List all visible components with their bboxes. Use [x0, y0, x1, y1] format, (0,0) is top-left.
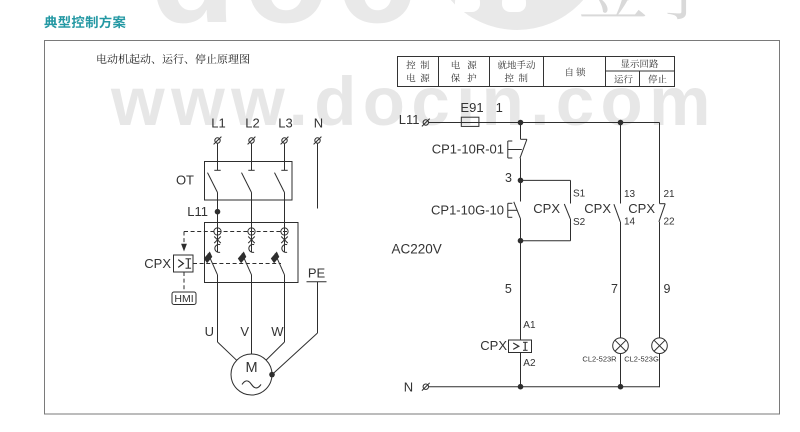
svg-text:CP1-10G-10: CP1-10G-10 [431, 203, 504, 218]
svg-text:W: W [271, 324, 284, 339]
svg-text:U: U [205, 324, 214, 339]
svg-text:7: 7 [611, 282, 618, 296]
svg-text:3: 3 [505, 171, 512, 185]
svg-text:5: 5 [505, 282, 512, 296]
svg-text:CPX: CPX [584, 201, 611, 216]
svg-text:L1: L1 [211, 116, 225, 131]
svg-text:L3: L3 [278, 116, 292, 131]
svg-text:M: M [245, 360, 257, 376]
svg-text:CPX: CPX [144, 256, 171, 271]
svg-text:V: V [240, 324, 249, 339]
svg-text:PE: PE [308, 266, 326, 281]
svg-text:S1: S1 [573, 189, 586, 200]
svg-text:A2: A2 [523, 358, 536, 369]
svg-text:OT: OT [176, 173, 194, 188]
svg-text:CPX: CPX [480, 338, 507, 353]
svg-text:CP1-10R-01: CP1-10R-01 [432, 142, 504, 157]
svg-text:21: 21 [664, 189, 676, 200]
svg-text:N: N [404, 380, 413, 395]
svg-text:L11: L11 [399, 112, 420, 127]
svg-text:CPX: CPX [533, 201, 560, 216]
svg-text:1: 1 [496, 100, 503, 115]
svg-text:AC220V: AC220V [392, 242, 442, 257]
svg-text:HMI: HMI [174, 293, 193, 305]
svg-text:CL2-523G: CL2-523G [624, 355, 659, 364]
svg-text:A1: A1 [523, 320, 536, 331]
svg-text:L11: L11 [187, 204, 208, 219]
svg-text:9: 9 [664, 282, 671, 296]
svg-text:S2: S2 [573, 217, 586, 228]
svg-text:14: 14 [624, 217, 636, 228]
svg-text:22: 22 [664, 217, 676, 228]
svg-text:CL2-523R: CL2-523R [582, 355, 617, 364]
svg-text:CPX: CPX [628, 201, 655, 216]
svg-text:13: 13 [624, 189, 636, 200]
svg-text:doc: doc [150, 0, 423, 52]
svg-text:E91: E91 [460, 100, 483, 115]
svg-text:L2: L2 [245, 116, 259, 131]
svg-text:N: N [314, 116, 323, 131]
